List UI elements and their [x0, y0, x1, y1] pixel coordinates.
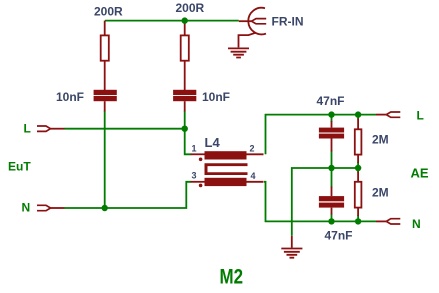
junction dot N rail [102, 205, 108, 211]
svg-text:N: N [22, 201, 31, 215]
transformer L4 pin 2 stub [247, 153, 264, 155]
ground symbol at FR-IN [228, 48, 249, 57]
svg-text:4: 4 [251, 171, 256, 181]
connector N right stub [376, 220, 386, 222]
resistor R2 200R body [181, 35, 189, 60]
resistor R1 200R pins [104, 21, 106, 91]
connector L left fork [37, 126, 51, 131]
junction dot R3 bottom AE rail [355, 165, 361, 171]
wire C1 bottom to N rail [104, 111, 106, 209]
wire R3 column segments [357, 115, 359, 168]
wire top rail net [105, 20, 239, 22]
svg-text:N: N [412, 217, 421, 231]
transformer L4 polarity dot pin1 [199, 158, 203, 162]
svg-text:3: 3 [192, 170, 197, 180]
svg-text:10nF: 10nF [202, 90, 230, 104]
svg-text:EuT: EuT [8, 160, 31, 174]
connector N right fork [386, 219, 400, 224]
connector L left stub [51, 128, 65, 130]
svg-text:2M: 2M [372, 186, 389, 200]
junction dot R2 top [182, 17, 188, 23]
capacitor C2 bottom pin [184, 101, 186, 111]
svg-text:200R: 200R [176, 1, 205, 15]
transformer L4 core [205, 163, 248, 175]
svg-text:L4: L4 [205, 135, 221, 150]
transformer L4 winding 1 [205, 151, 247, 159]
connector FR-IN pin wire [239, 20, 252, 22]
wire C4 column segments [331, 168, 333, 221]
resistor R4 2M pins [357, 172, 359, 217]
connector N left stub [51, 207, 65, 209]
wire pin4 to bottom-right rail [264, 182, 376, 222]
svg-text:2: 2 [250, 144, 255, 154]
resistor R2 200R pins [184, 21, 186, 91]
transformer L4 pin 3 stub [191, 181, 205, 183]
wire R4 column segments [357, 168, 359, 221]
connector L right stub [376, 114, 386, 116]
ground symbol at AE rail bars [281, 249, 302, 258]
svg-text:47nF: 47nF [317, 94, 345, 108]
transformer L4 winding 2 [205, 178, 247, 186]
connector L right fork [386, 112, 400, 117]
wire N rail from connector to pin3 [65, 182, 192, 208]
capacitor C1 bottom pin [104, 101, 106, 111]
svg-text:2M: 2M [372, 133, 389, 147]
capacitor C3 47nF plates [319, 128, 344, 133]
svg-text:L: L [417, 109, 424, 123]
svg-text:47nF: 47nF [325, 229, 353, 243]
capacitor C3 47nF top pins [331, 121, 333, 152]
svg-text:1: 1 [192, 144, 197, 154]
svg-text:L: L [24, 122, 31, 136]
resistor R3 2M body [355, 129, 362, 154]
wire AE middle rail and ground riser [292, 168, 358, 236]
capacitor C2 10nF plates [173, 90, 196, 95]
connector FR-IN shield tap wire [239, 33, 256, 48]
junction dot C4 bottom [328, 218, 334, 224]
ground symbol at AE rail stem [291, 236, 293, 248]
capacitor C1 10nF plates [94, 90, 117, 95]
wire C2 bottom to L junction [184, 111, 186, 129]
resistor R1 200R body [101, 35, 109, 60]
svg-text:10nF: 10nF [56, 90, 84, 104]
junction dot L rail [182, 126, 188, 132]
junction dot R4 bottom [355, 218, 361, 224]
svg-text:200R: 200R [94, 5, 123, 19]
svg-text:M2: M2 [220, 266, 244, 289]
svg-text:FR-IN: FR-IN [272, 15, 304, 29]
junction dot C3 bottom AE rail [328, 165, 334, 171]
wire pin2 riser to top-right rail [266, 115, 377, 155]
connector FR-IN center fork [252, 19, 267, 24]
wire C3 column segments [331, 115, 333, 168]
junction dot C3 top [328, 111, 334, 117]
resistor R4 2M body [355, 182, 362, 208]
capacitor C4 47nF plates [319, 196, 344, 201]
connector N left fork [37, 205, 51, 210]
connector FR-IN shield arc [248, 8, 266, 35]
svg-text:AE: AE [411, 166, 429, 181]
transformer L4 pin 1 stub [191, 153, 205, 155]
wire L rail from connector to junction and pin1 [65, 129, 192, 155]
transformer L4 pin 4 stub [247, 181, 264, 183]
resistor R3 2M pins [357, 119, 359, 164]
transformer L4 polarity dot pin3 [199, 184, 203, 188]
junction dot R3 top [355, 111, 361, 117]
capacitor C4 47nF pins [331, 187, 333, 215]
